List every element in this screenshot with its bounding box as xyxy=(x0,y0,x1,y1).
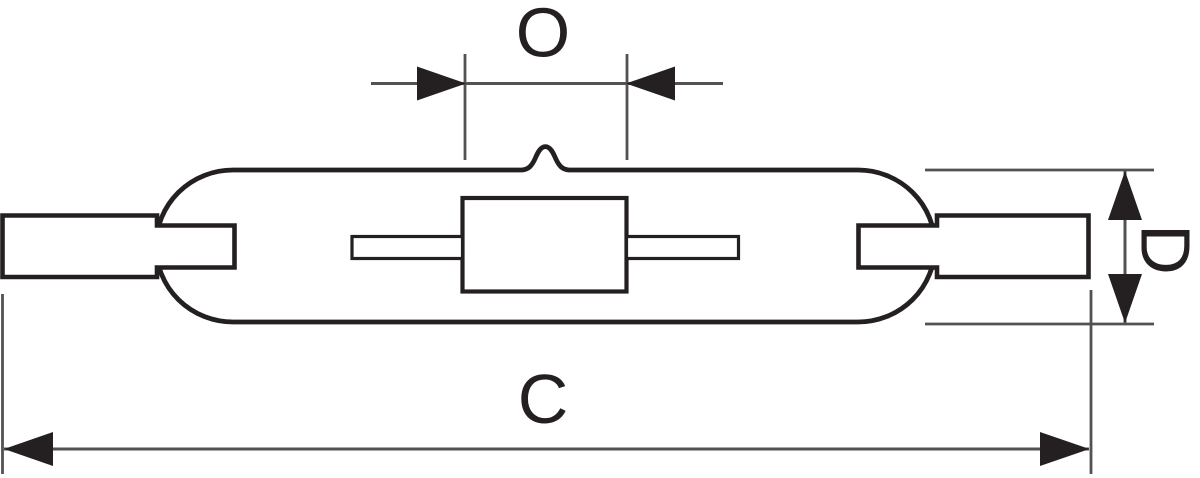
lamp body outline with exhaust tip bump xyxy=(156,147,935,322)
dimension O: dimension line xyxy=(371,82,723,85)
right end cap with contact pin xyxy=(859,216,1089,278)
dimension C: arrowhead left (points left) xyxy=(4,432,53,466)
dimension D: extension line bottom xyxy=(925,323,1154,326)
dimension O: extension line right xyxy=(626,54,629,160)
right lead wire xyxy=(627,237,739,259)
svg-text:C: C xyxy=(518,360,569,438)
dimension O: arrowhead left (points right) xyxy=(417,67,466,101)
left lead wire xyxy=(352,237,463,259)
dimension O: extension line left xyxy=(464,54,467,160)
dimension D: arrowhead down xyxy=(1108,274,1142,323)
svg-text:O: O xyxy=(516,0,570,72)
dimension D: arrowhead up xyxy=(1108,171,1142,220)
dimension C: extension line right xyxy=(1090,290,1093,474)
svg-text:D: D xyxy=(1127,224,1200,275)
dimension D: extension line top xyxy=(925,169,1154,172)
left end cap with contact pin xyxy=(3,216,235,278)
inner burner rectangle xyxy=(463,198,627,292)
dimension C: dimension line xyxy=(4,448,1089,451)
dimension O: arrowhead right (points left) xyxy=(626,67,675,101)
dimension C: arrowhead right (points right) xyxy=(1040,432,1090,466)
dimension C: extension line left xyxy=(1,294,4,474)
dimension D: dimension line xyxy=(1124,170,1127,324)
